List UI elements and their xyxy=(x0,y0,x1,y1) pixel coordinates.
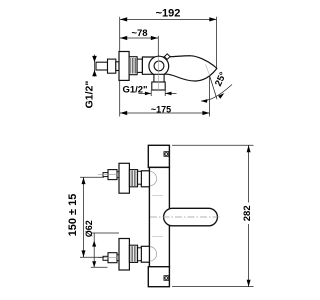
horizontal centreline of supply pipe xyxy=(96,64,199,66)
outlet dim arrow right xyxy=(165,92,171,96)
upper wall stub xyxy=(141,171,149,187)
dim ~175 arrow right xyxy=(202,111,209,115)
cartridge cap inner circle xyxy=(154,61,164,71)
supply pipe (wall side) xyxy=(96,62,108,70)
handle (lever, front view) xyxy=(164,208,218,226)
vertical centreline through body xyxy=(157,57,159,92)
G1/2 left dimension line xyxy=(94,55,96,77)
dim 150±15 arrow top xyxy=(82,177,86,184)
mixer body and spout outline xyxy=(142,56,216,81)
dim Ø62 extension line bottom xyxy=(91,266,108,268)
spout mouth line xyxy=(206,65,210,76)
dim ~192 line xyxy=(120,18,217,20)
dim 282 arrow bottom xyxy=(247,280,251,287)
dim ~175 line xyxy=(120,112,210,114)
thread ridges on lower coupling xyxy=(130,246,132,262)
upper pipe centreline xyxy=(98,174,118,176)
dim ~175 arrow left xyxy=(120,111,127,115)
svg-text:G1/2": G1/2" xyxy=(84,81,96,109)
lower pipe centreline xyxy=(98,257,118,259)
G1/2 left arrow bottom xyxy=(92,70,97,76)
lower connection: hex nut xyxy=(108,253,117,263)
25deg arc arrow right xyxy=(218,93,224,99)
dim ~192 arrow left xyxy=(120,17,127,21)
bottom cap clip detail xyxy=(164,276,169,281)
body seam upper xyxy=(152,194,163,196)
lower inlet boss arc xyxy=(149,247,156,262)
dim 150±15 line xyxy=(83,177,85,257)
dim ~78 line xyxy=(120,37,158,39)
thread ridges on upper coupling xyxy=(130,171,132,187)
dim 282 extension line bottom xyxy=(172,286,254,288)
upper connection: tail pipe xyxy=(103,173,108,177)
dim 150±15 extension line upper xyxy=(80,176,104,178)
dim ~192 extension line right xyxy=(216,17,218,68)
outlet dim extension line left xyxy=(150,90,152,96)
dim Ø62 extension line top xyxy=(92,232,120,234)
outlet lower block xyxy=(152,82,165,90)
dim ~175 extension line right xyxy=(209,76,211,117)
dim ~192 arrow right xyxy=(209,17,216,21)
dim 282 label background xyxy=(241,203,252,225)
svg-text:Ø62: Ø62 xyxy=(84,220,94,237)
upper inlet boss arc xyxy=(149,171,156,186)
top cap of column xyxy=(148,145,169,167)
outlet dim line right segment xyxy=(165,92,176,94)
upper coupling nut xyxy=(129,170,137,187)
diverter tab on body xyxy=(164,54,170,60)
hex nut on supply pipe xyxy=(108,59,116,73)
dim Ø62 line xyxy=(93,233,95,267)
lower connector piece xyxy=(138,248,142,261)
upper rosette xyxy=(119,163,129,193)
upper connection: hex nut xyxy=(108,170,117,180)
upper connection: neck xyxy=(117,172,119,178)
outlet dim line left segment xyxy=(139,92,152,94)
dim ~78 arrow left xyxy=(120,36,127,40)
25deg arc xyxy=(201,85,232,102)
handle axis centreline xyxy=(150,216,221,218)
svg-text:~192: ~192 xyxy=(156,7,181,19)
25deg slanted leg from spout mouth xyxy=(210,76,217,99)
dim 282 line xyxy=(248,145,250,286)
dim ~78 extension line right / vertical axis xyxy=(157,36,159,57)
threaded coupling nut xyxy=(129,57,137,75)
outlet upper block xyxy=(154,74,164,82)
bottom cap of column xyxy=(148,267,169,287)
column vertical centreline xyxy=(158,146,160,286)
svg-text:150 ± 15: 150 ± 15 xyxy=(67,194,79,237)
cartridge cap outer circle xyxy=(149,56,169,76)
25deg arc arrow left xyxy=(201,99,208,103)
svg-text:~175: ~175 xyxy=(151,105,171,115)
dim 282 extension line top xyxy=(172,144,254,146)
dim Ø62 arrow top xyxy=(92,241,96,247)
body seam lower xyxy=(152,236,163,238)
svg-text:G1/2": G1/2" xyxy=(122,85,147,96)
inlet block of body xyxy=(137,59,142,72)
upper connector piece xyxy=(138,171,142,184)
dim ~192 extension line left xyxy=(119,17,121,117)
dim 150±15 extension line lower xyxy=(80,256,104,258)
top cap clip detail xyxy=(164,152,169,157)
neck between nut and rosette xyxy=(116,62,119,71)
main column xyxy=(149,167,169,266)
thread ridges on coupling xyxy=(130,58,132,74)
dim 150±15 arrow bottom xyxy=(82,250,86,257)
lower connection: tail pipe xyxy=(103,256,108,260)
dim Ø62 arrow bottom xyxy=(92,261,96,267)
outlet dim extension line right xyxy=(164,90,166,96)
wall rosette (escutcheon, side view) xyxy=(119,52,129,81)
lower wall stub xyxy=(141,246,149,262)
dim ~78 arrow right xyxy=(151,36,158,40)
lower connection: neck xyxy=(117,255,119,261)
lower rosette xyxy=(119,239,129,271)
dim 282 arrow top xyxy=(247,145,251,152)
outlet dim arrow left xyxy=(145,92,151,96)
G1/2 left arrow top xyxy=(92,56,97,62)
svg-text:282: 282 xyxy=(242,205,253,221)
svg-text:~78: ~78 xyxy=(131,28,147,39)
lower coupling nut xyxy=(129,245,137,262)
